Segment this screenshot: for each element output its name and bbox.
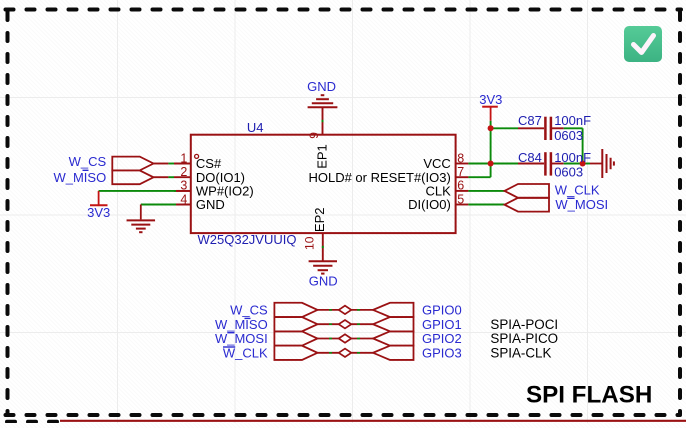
svg-text:GND: GND <box>309 273 338 288</box>
svg-text:SPIA-PICO: SPIA-PICO <box>490 331 558 346</box>
svg-text:6: 6 <box>457 179 464 193</box>
svg-text:GPIO3: GPIO3 <box>422 346 462 361</box>
svg-text:5: 5 <box>457 192 464 206</box>
svg-text:DI(IO0): DI(IO0) <box>408 197 451 212</box>
svg-text:9: 9 <box>307 132 321 139</box>
svg-text:SPIA-POCI: SPIA-POCI <box>490 317 558 332</box>
svg-text:1: 1 <box>180 151 187 165</box>
svg-text:U4: U4 <box>247 120 264 135</box>
svg-text:GPIO2: GPIO2 <box>422 331 462 346</box>
svg-text:SPI FLASH: SPI FLASH <box>526 381 652 408</box>
svg-text:W_CLK: W_CLK <box>555 183 600 198</box>
svg-text:W_CS: W_CS <box>69 154 107 169</box>
svg-text:7: 7 <box>457 165 464 179</box>
svg-text:W_CS: W_CS <box>230 303 268 318</box>
svg-text:0603: 0603 <box>554 128 583 143</box>
svg-text:GND: GND <box>196 197 225 212</box>
svg-text:C87: C87 <box>518 113 542 128</box>
svg-text:8: 8 <box>457 151 464 165</box>
svg-text:GPIO0: GPIO0 <box>422 303 462 318</box>
svg-text:0603: 0603 <box>554 165 583 180</box>
svg-text:W_MOSI: W_MOSI <box>215 331 268 346</box>
svg-text:GPIO1: GPIO1 <box>422 317 462 332</box>
svg-text:SPIA-CLK: SPIA-CLK <box>490 346 551 361</box>
svg-text:GND: GND <box>307 79 336 94</box>
svg-text:W_CLK: W_CLK <box>223 346 268 361</box>
svg-text:EP2: EP2 <box>312 208 327 233</box>
svg-text:100nF: 100nF <box>554 150 591 165</box>
svg-text:3V3: 3V3 <box>87 205 110 220</box>
svg-text:10: 10 <box>303 236 317 250</box>
svg-text:W25Q32JVUUIQ: W25Q32JVUUIQ <box>198 232 297 247</box>
svg-text:3V3: 3V3 <box>479 92 502 107</box>
svg-text:W_MISO: W_MISO <box>215 317 268 332</box>
svg-text:2: 2 <box>180 165 187 179</box>
svg-text:C84: C84 <box>518 150 542 165</box>
svg-text:W_MISO: W_MISO <box>53 170 106 185</box>
svg-text:W_MOSI: W_MOSI <box>555 197 608 212</box>
svg-text:100nF: 100nF <box>554 113 591 128</box>
svg-text:EP1: EP1 <box>314 144 329 169</box>
